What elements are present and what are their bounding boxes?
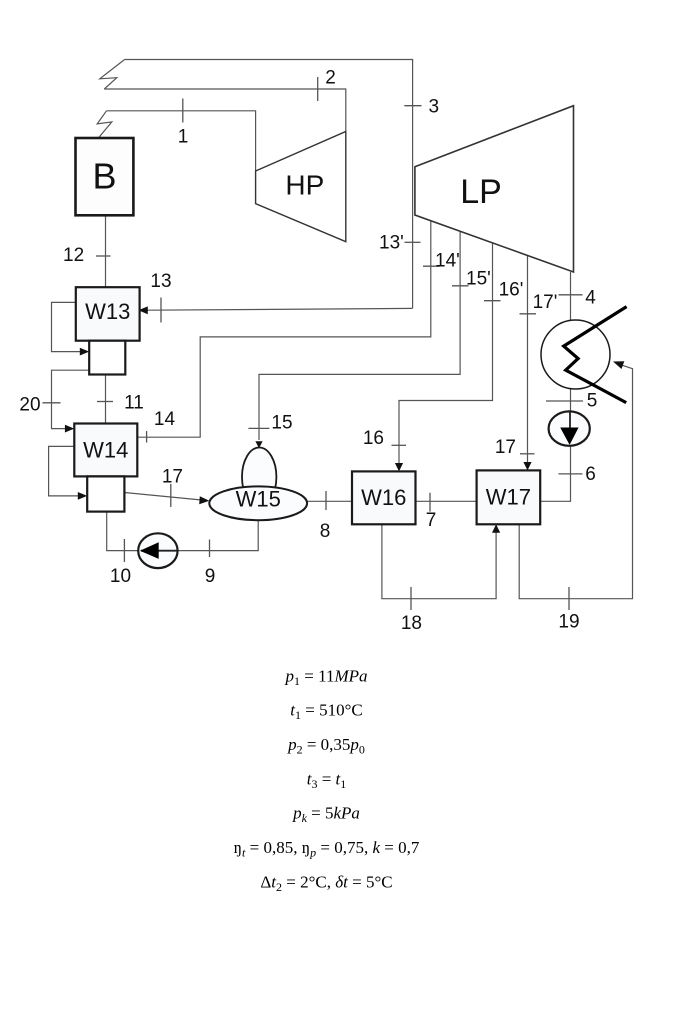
tick 7: [429, 493, 431, 512]
svg-text:15': 15': [466, 269, 491, 290]
wire 2: HP exhaust to reheater: [104, 89, 345, 132]
tick 8: [325, 491, 327, 510]
svg-text:3: 3: [429, 97, 440, 118]
arrow into W17 top (wire 17): [523, 462, 531, 470]
svg-text:7: 7: [426, 510, 437, 531]
wire 7: W17 to W16: [416, 500, 477, 502]
arrow into W14 left (wire 20): [65, 425, 74, 433]
turbine HP: [256, 132, 346, 242]
tick 6: [559, 473, 583, 475]
arrow into W15 left (drain 17): [199, 496, 209, 504]
svg-text:5: 5: [587, 391, 598, 412]
arrow into condenser (wire 19): [613, 361, 624, 369]
svg-text:16': 16': [499, 280, 524, 301]
wire 16': extraction to W16: [399, 243, 493, 464]
turbine LP: [415, 106, 574, 272]
wire 13: extraction to W13: [148, 308, 413, 310]
condenser cooling water coil: [564, 307, 627, 403]
feed pump: [138, 533, 177, 568]
wire 8: W16 to W15: [307, 500, 352, 502]
svg-text:15: 15: [271, 413, 292, 434]
deaerator W15 dome: [242, 448, 276, 507]
svg-text:17': 17': [533, 292, 558, 313]
svg-text:13': 13': [379, 233, 404, 254]
arrow into W14 drain cooler: [78, 492, 87, 500]
tick 11: [97, 401, 113, 403]
svg-text:17: 17: [495, 437, 516, 458]
svg-text:2: 2: [325, 68, 336, 89]
svg-text:20: 20: [19, 395, 40, 416]
svg-text:8: 8: [320, 521, 331, 542]
svg-text:19: 19: [558, 612, 579, 633]
wire 12: W13 to boiler feedwater: [105, 215, 107, 287]
tick 9: [209, 540, 211, 558]
tick 13': [405, 241, 421, 243]
tick 20: [43, 402, 61, 404]
tick 17 (W14 drain): [170, 484, 172, 507]
heater W17: [477, 470, 541, 524]
wire 18: W16 drain to W17: [382, 524, 496, 598]
tick 14: [146, 431, 148, 443]
svg-text:14: 14: [154, 409, 176, 430]
break symbol at boiler outlet: [97, 111, 112, 138]
wire 15': extraction to W15: [259, 231, 460, 440]
tick 18: [410, 587, 412, 610]
tick 15': [452, 285, 469, 287]
heater W14 drain cooler: [87, 476, 124, 511]
wire 17 drain: W14 to W15: [124, 493, 201, 501]
svg-text:18: 18: [401, 613, 422, 634]
condenser: [541, 307, 627, 403]
tick 15: [248, 427, 269, 429]
svg-text:pk = 5kPa: pk = 5kPa: [292, 804, 360, 826]
wire 14': extraction to W14: [137, 221, 431, 438]
tick 14': [423, 265, 440, 267]
svg-text:W16: W16: [361, 485, 406, 510]
svg-text:ŋt = 0,85, ŋp = 0,75, k = 0,7: ŋt = 0,85, ŋp = 0,75, k = 0,7: [234, 838, 420, 860]
svg-text:W17: W17: [486, 485, 531, 510]
wire 6: pump to W17: [540, 445, 570, 501]
arrow into W16 top (wire 16): [395, 463, 403, 471]
tick 16: [392, 444, 407, 446]
svg-text:10: 10: [110, 566, 131, 587]
wire W13 drain loop: [52, 302, 82, 351]
tick 19: [568, 587, 570, 610]
wire 1: boiler to HP inlet: [107, 111, 256, 171]
svg-text:1: 1: [178, 127, 189, 148]
svg-text:13: 13: [150, 271, 171, 292]
wire 11: W13 to W14 feedwater: [105, 375, 107, 424]
break symbol reheater: [100, 60, 125, 90]
tick 10: [123, 539, 125, 562]
heater W16: [352, 471, 416, 524]
svg-text:9: 9: [205, 566, 216, 587]
tick 13: [160, 298, 162, 323]
svg-text:6: 6: [585, 464, 596, 485]
arrow into W13 drain cooler: [80, 348, 89, 356]
svg-text:p2 = 0,35p0: p2 = 0,35p0: [287, 735, 365, 757]
svg-text:B: B: [92, 156, 116, 197]
tick 16': [484, 300, 501, 302]
heater W13: [76, 287, 140, 341]
heater W13 drain cooler: [89, 341, 125, 375]
tick 12: [96, 255, 111, 257]
svg-text:t1 = 510°C: t1 = 510°C: [290, 701, 362, 723]
svg-text:16: 16: [363, 428, 384, 449]
arrow into W13 (wire 13): [138, 306, 148, 314]
wire 3: reheat line to LP inlet: [125, 60, 413, 309]
svg-text:12: 12: [63, 245, 84, 266]
svg-text:4: 4: [585, 288, 596, 309]
svg-text:t3 = t1: t3 = t1: [307, 769, 347, 791]
wire 17': extraction to W17: [527, 256, 529, 463]
tick 1: [182, 99, 184, 123]
svg-text:14': 14': [435, 251, 460, 272]
tick 2: [317, 77, 319, 101]
deaerator W15: [209, 486, 307, 520]
svg-text:W14: W14: [83, 438, 128, 463]
tick 3: [404, 105, 421, 107]
arrow into W17 bottom (wire 18): [492, 524, 500, 532]
wire 19: W17 drain to condenser: [519, 365, 632, 599]
svg-text:Δt2 = 2°C, δt = 5°C: Δt2 = 2°C, δt = 5°C: [260, 872, 392, 894]
svg-text:11: 11: [124, 393, 144, 414]
boiler B: [76, 138, 134, 215]
heater W14: [74, 424, 137, 477]
tick 17': [520, 313, 537, 315]
wire 5: condenser to condensate pump: [570, 389, 572, 427]
wire 4: LP exhaust to condenser: [570, 272, 572, 324]
wire 9-10: W15 through feed pump to W14: [107, 512, 259, 551]
svg-text:p1 = 11MPa: p1 = 11MPa: [284, 666, 367, 688]
svg-text:W15: W15: [236, 487, 281, 512]
svg-text:W13: W13: [85, 299, 130, 324]
tick 4: [559, 294, 583, 296]
wire W14 drain loop: [49, 446, 80, 496]
svg-text:HP: HP: [285, 170, 324, 201]
tick 5: [546, 400, 583, 402]
svg-text:LP: LP: [460, 173, 502, 211]
condensate pump: [549, 411, 590, 445]
arrow into W15 dome (wire 15): [255, 441, 262, 448]
tick 17 (into W17): [520, 453, 535, 455]
wire 20: W13 drain to W14: [52, 370, 90, 428]
svg-text:17: 17: [162, 467, 183, 488]
